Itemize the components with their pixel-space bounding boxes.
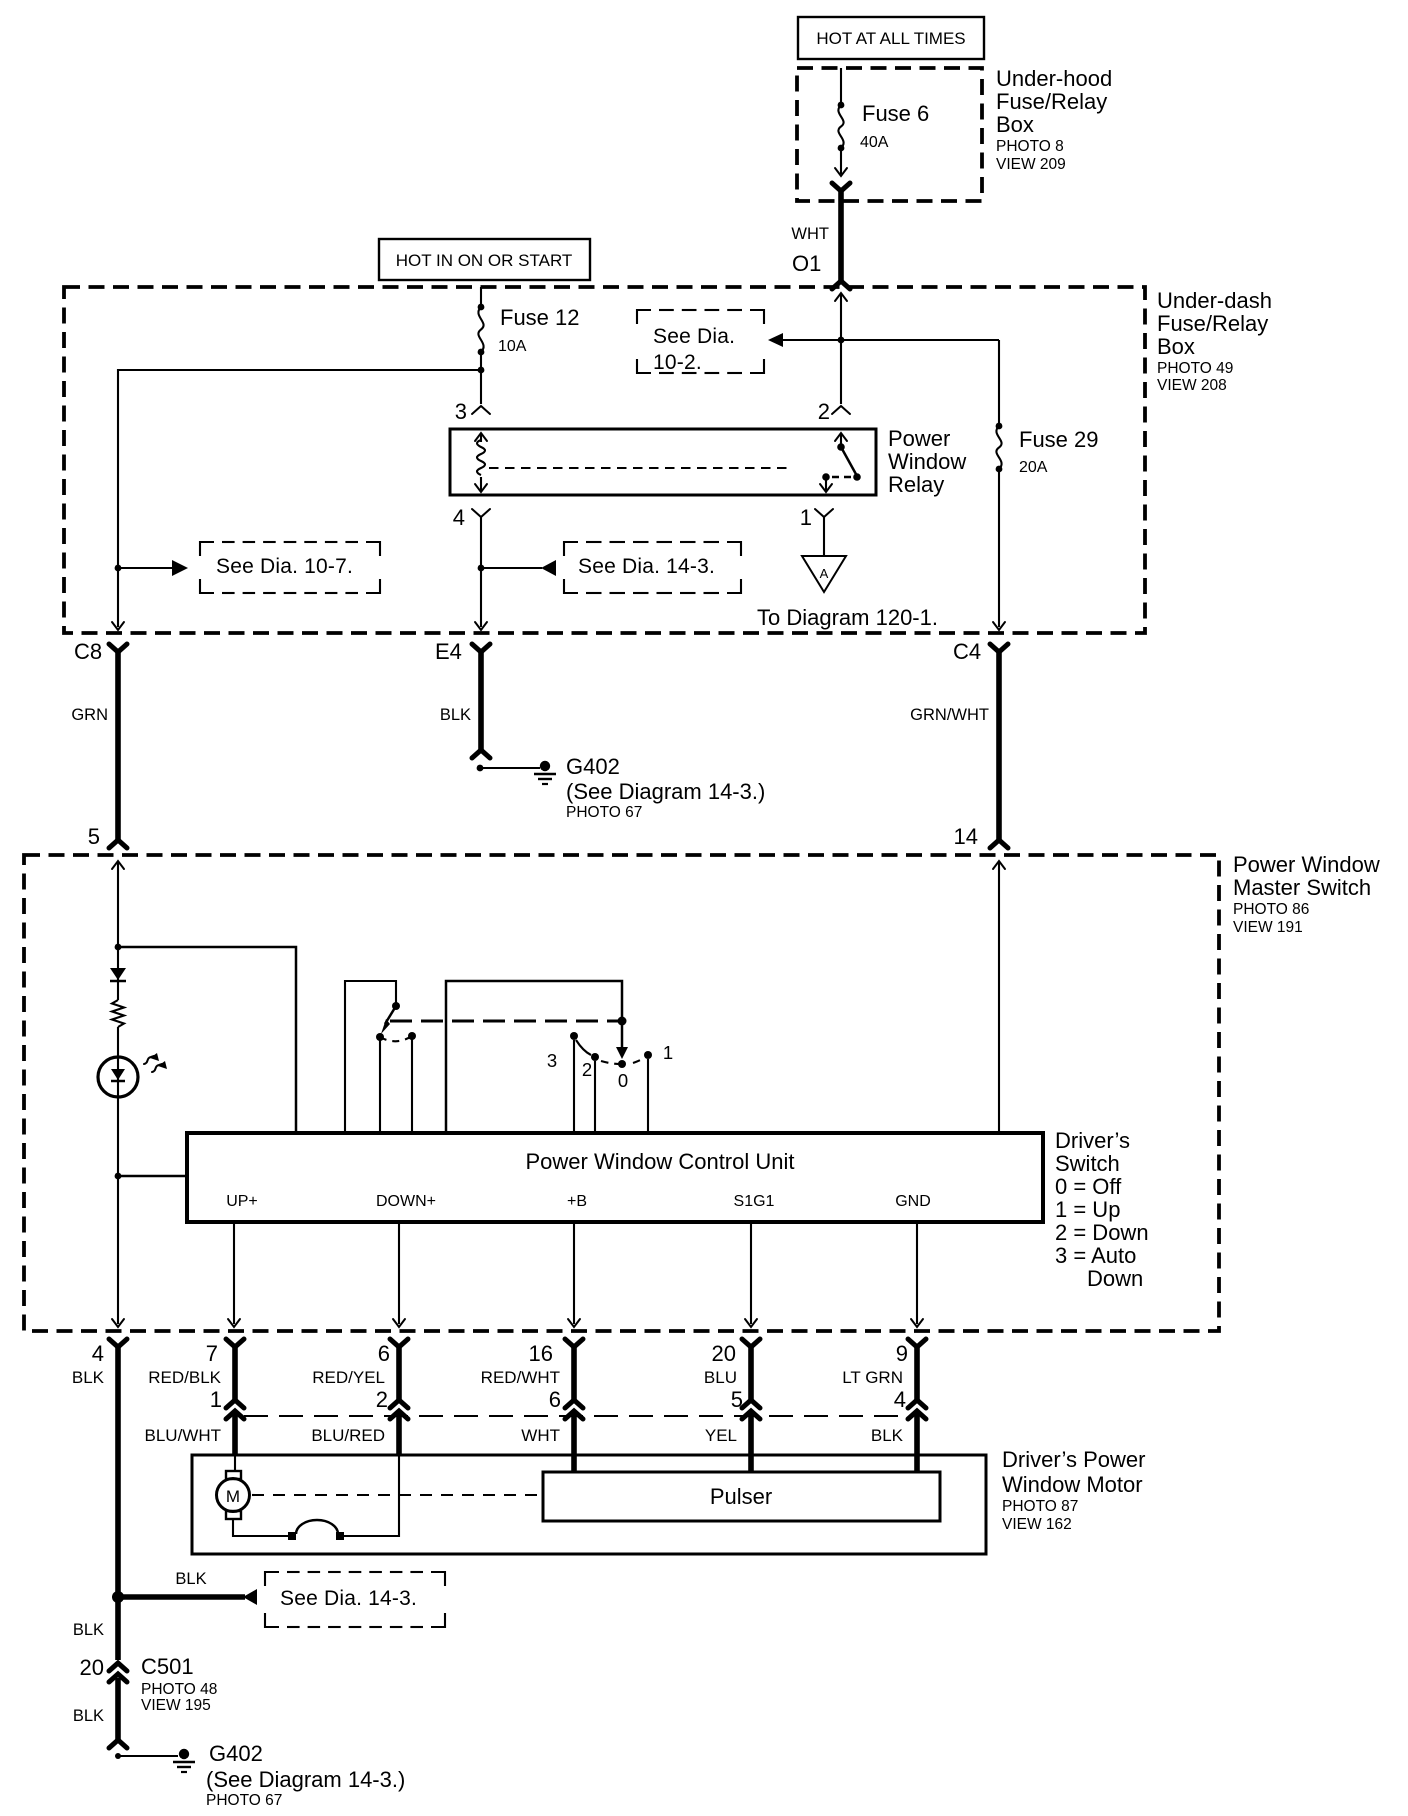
fuse F29	[993, 340, 1005, 630]
connector C501	[109, 1663, 127, 1748]
svg-text:14: 14	[954, 824, 978, 849]
ground G402 label (bottom)	[206, 1741, 405, 1809]
wire pin 14 entering master switch to control unit	[993, 861, 1005, 1133]
junction at O1/fuse29 branch	[838, 337, 845, 344]
connector C501 label	[141, 1654, 217, 1714]
under-hood fuse/relay box	[797, 68, 982, 201]
svg-text:Fuse 29: Fuse 29	[1019, 427, 1099, 452]
power window control unit	[187, 1133, 1043, 1222]
svg-text:G402: G402	[566, 754, 620, 779]
svg-text:To Diagram 120-1.: To Diagram 120-1.	[757, 605, 938, 630]
pulser box	[543, 1472, 940, 1521]
svg-text:Under-dash: Under-dash	[1157, 288, 1272, 313]
svg-text:WHT: WHT	[791, 225, 829, 243]
svg-text:Power Window: Power Window	[1233, 852, 1380, 877]
svg-text:+B: +B	[567, 1193, 587, 1210]
svg-text:BLK: BLK	[440, 706, 471, 724]
wire pin4 BLK main	[109, 1339, 127, 1660]
pin number labels row 2	[210, 1387, 906, 1412]
contact 0	[618, 1060, 626, 1068]
driver's switch legend	[1055, 1128, 1149, 1291]
svg-text:Fuse 12: Fuse 12	[500, 305, 580, 330]
junction LED branch bottom	[115, 1173, 122, 1180]
svg-text:RED/WHT: RED/WHT	[481, 1368, 560, 1387]
svg-text:6: 6	[378, 1341, 390, 1366]
svg-text:4: 4	[453, 505, 465, 530]
svg-text:See Dia.: See Dia.	[653, 325, 735, 348]
relay pin 1 connector	[800, 505, 833, 530]
wire contact 2 to control unit	[594, 1061, 596, 1133]
power window master switch box	[24, 855, 1219, 1331]
wire contact 1 to control unit	[647, 1059, 649, 1133]
wire pin 5 entering master switch	[112, 861, 124, 1327]
control unit pin labels	[226, 1193, 931, 1210]
svg-text:20A: 20A	[1019, 459, 1048, 476]
svg-text:PHOTO 8: PHOTO 8	[996, 138, 1064, 155]
svg-text:Power: Power	[888, 426, 950, 451]
svg-text:4: 4	[894, 1387, 906, 1412]
wire GND pin stub	[911, 1222, 923, 1327]
up/auto switch loop wire	[446, 981, 622, 1133]
up/auto switch pole arrow	[616, 1021, 628, 1059]
wire C8 GRN	[109, 644, 127, 848]
svg-text:PHOTO 49: PHOTO 49	[1157, 360, 1233, 377]
down switch contact arc	[380, 1036, 412, 1041]
svg-text:Master Switch: Master Switch	[1233, 875, 1371, 900]
svg-text:9: 9	[896, 1341, 908, 1366]
svg-text:WHT: WHT	[521, 1426, 560, 1445]
svg-text:Power Window Control Unit: Power Window Control Unit	[526, 1149, 795, 1174]
svg-text:RED/BLK: RED/BLK	[148, 1368, 221, 1387]
motor to pulser dashed link	[252, 1494, 541, 1496]
svg-text:1: 1	[210, 1387, 222, 1412]
resistor R1	[112, 1000, 124, 1027]
down switch contact left	[376, 1033, 384, 1041]
svg-text:HOT AT ALL TIMES: HOT AT ALL TIMES	[816, 29, 965, 48]
junction to See Dia. 14-3	[478, 565, 485, 572]
wire DOWN+ pin stub	[393, 1222, 405, 1327]
under-dash fuse/relay box	[64, 287, 1145, 633]
junction to See Dia. 10-7	[115, 565, 122, 572]
wire +B pin stub	[568, 1222, 580, 1327]
motor box label	[1002, 1447, 1145, 1533]
switch position labels	[547, 1042, 673, 1091]
wire UP+ pin stub	[228, 1222, 240, 1327]
header box HOT IN ON OR START	[379, 239, 590, 280]
relay label	[888, 426, 966, 497]
switch linkage dashed	[390, 1020, 622, 1023]
svg-text:5: 5	[731, 1387, 743, 1412]
svg-text:1: 1	[800, 505, 812, 530]
svg-text:YEL: YEL	[705, 1426, 737, 1445]
wire O1 entering under-dash (pin 2 branch)	[835, 293, 847, 404]
driver's power window motor box	[192, 1455, 986, 1554]
svg-text:M: M	[226, 1487, 240, 1506]
svg-text:Down: Down	[1087, 1266, 1143, 1291]
relay pin 3 connector	[455, 399, 490, 424]
wire master switch pin at x=399	[390, 1339, 408, 1419]
svg-text:Box: Box	[1157, 334, 1195, 359]
selector contact arc	[601, 1054, 650, 1064]
svg-text:40A: 40A	[860, 134, 889, 151]
svg-text:Under-hood: Under-hood	[996, 66, 1112, 91]
svg-text:16: 16	[529, 1341, 553, 1366]
svg-text:Fuse/Relay: Fuse/Relay	[1157, 311, 1268, 336]
svg-text:2: 2	[376, 1387, 388, 1412]
wire master switch pin at x=917	[908, 1339, 926, 1419]
wire to C8 branch	[118, 370, 481, 627]
wire master switch pin at x=574	[565, 1339, 583, 1419]
header box HOT AT ALL TIMES	[798, 17, 984, 59]
svg-text:VIEW 195: VIEW 195	[141, 1697, 211, 1714]
svg-text:(See Diagram 14-3.): (See Diagram 14-3.)	[206, 1767, 405, 1792]
wire WHT to pulser	[571, 1414, 577, 1472]
svg-text:3 = Auto: 3 = Auto	[1055, 1243, 1136, 1268]
svg-text:Driver’s: Driver’s	[1055, 1128, 1130, 1153]
wire S1G1 pin stub	[745, 1222, 757, 1327]
ground G402 label	[566, 754, 765, 821]
connector C dashed line	[244, 1415, 910, 1417]
wire E4 BLK	[472, 644, 490, 758]
wire to See Dia. 10-2 and Fuse 29	[768, 333, 999, 347]
svg-text:C501: C501	[141, 1654, 194, 1679]
svg-text:G402: G402	[209, 1741, 263, 1766]
svg-text:Switch: Switch	[1055, 1151, 1120, 1176]
down switch contact right	[408, 1032, 416, 1040]
wire O1 WHT (under-hood to under-dash)	[832, 183, 850, 289]
svg-text:Window: Window	[888, 449, 966, 474]
wire pin1 to triangle A	[823, 517, 825, 556]
svg-text:PHOTO 86: PHOTO 86	[1233, 901, 1309, 918]
svg-text:Fuse 6: Fuse 6	[862, 101, 929, 126]
svg-text:HOT IN ON OR START: HOT IN ON OR START	[396, 251, 573, 270]
svg-text:BLK: BLK	[871, 1426, 904, 1445]
svg-text:Pulser: Pulser	[710, 1484, 772, 1509]
svg-text:2: 2	[582, 1059, 592, 1080]
off-page triangle A	[802, 556, 846, 592]
under-hood box label	[996, 66, 1112, 173]
svg-text:Window Motor: Window Motor	[1002, 1472, 1143, 1497]
svg-text:2 = Down: 2 = Down	[1055, 1220, 1149, 1245]
svg-text:10A: 10A	[498, 338, 527, 355]
svg-text:BLU/RED: BLU/RED	[311, 1426, 385, 1445]
ground G402 (E4)	[477, 761, 556, 784]
svg-text:LT GRN: LT GRN	[842, 1368, 903, 1387]
wire BLU/RED to motor	[396, 1414, 402, 1455]
svg-text:BLU: BLU	[704, 1368, 737, 1387]
svg-text:BLK: BLK	[175, 1570, 206, 1588]
wire master switch pin at x=235	[226, 1339, 244, 1419]
svg-text:7: 7	[206, 1341, 218, 1366]
svg-text:3: 3	[547, 1050, 557, 1071]
svg-text:RED/YEL: RED/YEL	[312, 1368, 385, 1387]
relay pin 2 connector	[818, 399, 850, 424]
svg-text:BLK: BLK	[73, 1621, 104, 1639]
wire relay pin4 to E4	[480, 517, 482, 627]
svg-text:BLU/WHT: BLU/WHT	[145, 1426, 222, 1445]
fuse F12 value label	[498, 305, 580, 355]
svg-text:See Dia. 14-3.: See Dia. 14-3.	[578, 555, 715, 578]
wire arrow to See Dia. 14-3	[481, 560, 556, 576]
svg-text:(See Diagram 14-3.): (See Diagram 14-3.)	[566, 779, 765, 804]
under-dash box label	[1157, 288, 1272, 394]
wire master switch pin at x=751	[742, 1339, 760, 1419]
down switch lever	[381, 1006, 396, 1034]
wire contact 3 to control unit	[573, 1040, 575, 1133]
svg-text:A: A	[820, 566, 829, 581]
svg-text:VIEW 208: VIEW 208	[1157, 377, 1227, 394]
junction fuse12/left branch	[478, 367, 485, 374]
power window relay U1	[450, 429, 876, 495]
wire pin1 to motor	[234, 1455, 236, 1472]
wire YEL to pulser	[748, 1414, 754, 1472]
LED emission arrows	[144, 1053, 167, 1072]
up/auto switch pivot junction	[618, 1017, 627, 1026]
wire motor bottom loop	[233, 1455, 399, 1540]
wire arrow to See Dia. 10-7	[118, 560, 188, 576]
diode D1	[110, 968, 126, 981]
fuse F6	[835, 68, 847, 176]
svg-text:GRN/WHT: GRN/WHT	[910, 706, 989, 724]
reference box See Dia. 10-7	[200, 542, 380, 593]
svg-text:20: 20	[712, 1341, 736, 1366]
svg-text:20: 20	[80, 1655, 104, 1680]
svg-text:UP+: UP+	[226, 1193, 258, 1210]
reference box See Dia. 10-2	[637, 310, 764, 374]
svg-text:VIEW 191: VIEW 191	[1233, 919, 1303, 936]
relay switch contacts (pin 2 to pin 1)	[820, 433, 861, 492]
reference box See Dia. 14-3 (bottom)	[265, 1572, 445, 1627]
svg-text:3: 3	[455, 399, 467, 424]
LED indicator	[98, 1057, 138, 1097]
svg-text:C4: C4	[953, 639, 981, 664]
svg-text:PHOTO 48: PHOTO 48	[141, 1681, 217, 1698]
svg-text:GND: GND	[895, 1193, 931, 1210]
svg-text:GRN: GRN	[71, 706, 108, 724]
svg-text:2: 2	[818, 399, 830, 424]
reference box See Dia. 14-3 (under-dash)	[564, 542, 741, 593]
pin number labels row 1	[92, 1341, 908, 1366]
svg-text:0 = Off: 0 = Off	[1055, 1174, 1122, 1199]
wire BLK to pulser	[914, 1414, 920, 1472]
down switch pivot	[392, 1002, 400, 1010]
master switch label	[1233, 852, 1380, 936]
svg-text:1: 1	[663, 1042, 673, 1063]
svg-text:BLK: BLK	[73, 1707, 104, 1725]
svg-text:E4: E4	[435, 639, 462, 664]
svg-text:VIEW 209: VIEW 209	[996, 156, 1066, 173]
motor M1	[217, 1471, 250, 1519]
svg-text:5: 5	[88, 824, 100, 849]
wire C4 GRN/WHT	[990, 644, 1008, 848]
down switch loop wire	[345, 981, 396, 1133]
fuse F6 value label	[860, 101, 929, 151]
svg-text:PHOTO 67: PHOTO 67	[566, 804, 642, 821]
wire to control unit left	[118, 1175, 187, 1178]
wire BLU/WHT to motor	[232, 1414, 238, 1455]
svg-text:See Dia. 10-7.: See Dia. 10-7.	[216, 555, 353, 578]
svg-text:S1G1: S1G1	[734, 1193, 775, 1210]
junction LED branch top	[115, 944, 122, 951]
relay coil	[475, 433, 487, 492]
svg-text:6: 6	[549, 1387, 561, 1412]
fuse F29 value label	[1019, 427, 1099, 476]
svg-text:10-2.: 10-2.	[653, 351, 702, 374]
wire branch to control unit top	[118, 947, 296, 1133]
svg-text:PHOTO 87: PHOTO 87	[1002, 1498, 1078, 1515]
contact 2	[591, 1053, 599, 1061]
wire arrow to See Dia. 14-3 (bottom)	[118, 1589, 257, 1605]
svg-text:VIEW 162: VIEW 162	[1002, 1516, 1072, 1533]
contact 1	[644, 1051, 652, 1059]
svg-text:O1: O1	[792, 251, 821, 276]
svg-text:PHOTO 67: PHOTO 67	[206, 1792, 282, 1809]
svg-text:0: 0	[618, 1070, 628, 1091]
wire color labels row 1	[72, 1368, 903, 1387]
junction See Dia 14-3 branch	[112, 1591, 124, 1603]
fuse F12	[478, 287, 485, 404]
svg-text:1 = Up: 1 = Up	[1055, 1197, 1120, 1222]
svg-text:Box: Box	[996, 112, 1034, 137]
svg-text:BLK: BLK	[72, 1368, 105, 1387]
relay internal dashed link	[489, 467, 789, 469]
ground G402 (bottom)	[115, 1749, 195, 1772]
wire contact left to control unit	[379, 1040, 381, 1133]
svg-text:Fuse/Relay: Fuse/Relay	[996, 89, 1107, 114]
svg-text:C8: C8	[74, 639, 102, 664]
contact 3	[570, 1032, 591, 1055]
wire color labels row 2	[145, 1426, 904, 1445]
svg-text:See Dia. 14-3.: See Dia. 14-3.	[280, 1587, 417, 1610]
svg-text:DOWN+: DOWN+	[376, 1193, 436, 1210]
wire contact right to control unit	[411, 1039, 413, 1133]
svg-text:Driver’s Power: Driver’s Power	[1002, 1447, 1145, 1472]
svg-text:Relay: Relay	[888, 472, 944, 497]
svg-text:4: 4	[92, 1341, 104, 1366]
relay pin 4 connector	[453, 505, 490, 530]
